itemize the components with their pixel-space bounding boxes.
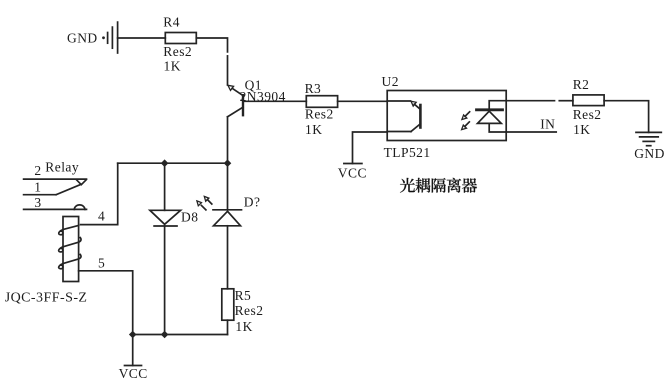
svg-text:1K: 1K (164, 59, 181, 74)
svg-text:D8: D8 (181, 210, 198, 225)
svg-text:Res2: Res2 (163, 44, 192, 59)
svg-text:4: 4 (98, 208, 105, 223)
svg-text:1K: 1K (235, 319, 252, 334)
power VCC (under U2) (344, 132, 387, 164)
svg-text:VCC: VCC (119, 366, 148, 381)
svg-text:Res2: Res2 (573, 107, 602, 122)
relay contacts (24, 179, 87, 209)
diode D? LED (213, 163, 242, 289)
svg-text:GND: GND (67, 31, 98, 46)
svg-text:TLP521: TLP521 (384, 145, 431, 160)
U2 light arrows (462, 112, 470, 130)
junction node (224, 159, 232, 167)
svg-text:1K: 1K (305, 122, 322, 137)
svg-text:Res2: Res2 (305, 107, 334, 122)
U2 phototransistor (387, 101, 420, 132)
svg-text:R5: R5 (235, 288, 252, 303)
optocoupler U2 body (387, 91, 506, 141)
junction node (129, 331, 137, 339)
relay coil (59, 217, 81, 282)
svg-text:2: 2 (34, 163, 41, 178)
svg-text:Res2: Res2 (235, 303, 264, 318)
power port GND (top left) (102, 22, 118, 53)
D? light arrows (197, 196, 212, 210)
resistor R3 (306, 96, 337, 108)
svg-text:1: 1 (34, 179, 41, 194)
U2 LED diode (477, 101, 507, 132)
wire Q1 base to R3 (243, 100, 306, 102)
svg-text:2N3904: 2N3904 (240, 89, 286, 104)
wire GND to R4 (118, 37, 166, 39)
svg-text:VCC: VCC (338, 165, 367, 180)
svg-text:R2: R2 (573, 77, 590, 92)
svg-text:Relay: Relay (45, 159, 79, 174)
diode D8 (150, 163, 181, 334)
svg-text:D?: D? (244, 194, 261, 209)
wire R4 to corner (196, 38, 227, 52)
svg-text:R4: R4 (163, 15, 180, 30)
svg-text:R3: R3 (305, 81, 322, 96)
wire bottom bus (133, 334, 228, 336)
resistor R2 (573, 95, 604, 106)
svg-text:U2: U2 (382, 74, 399, 89)
wire U2 to IN (506, 131, 556, 133)
resistor R5 (222, 289, 234, 320)
label Chinese 光耦隔离器 (400, 178, 477, 193)
resistor R4 (165, 33, 196, 44)
ground GND (right) (636, 132, 661, 145)
svg-text:5: 5 (98, 256, 105, 271)
svg-text:1K: 1K (573, 122, 590, 137)
wire relay pin5 (79, 271, 133, 335)
wire R2 to GND corner (604, 101, 649, 133)
svg-text:GND: GND (634, 146, 665, 161)
svg-text:JQC-3FF-S-Z: JQC-3FF-S-Z (5, 290, 88, 305)
transistor Q1 (228, 85, 244, 117)
wire R5 to bottom bus (227, 320, 229, 334)
wire R3 to U2 (338, 100, 388, 102)
power VCC (bottom) (125, 335, 142, 366)
wire Q1 collector down to bus (227, 117, 229, 163)
junction node (161, 159, 169, 167)
svg-text:3: 3 (34, 195, 41, 210)
wire top bus (118, 162, 228, 164)
wire U2 to R2 (506, 100, 554, 102)
wire bus left riser (81, 163, 118, 224)
junction node (161, 331, 169, 339)
svg-text:IN: IN (540, 116, 555, 131)
